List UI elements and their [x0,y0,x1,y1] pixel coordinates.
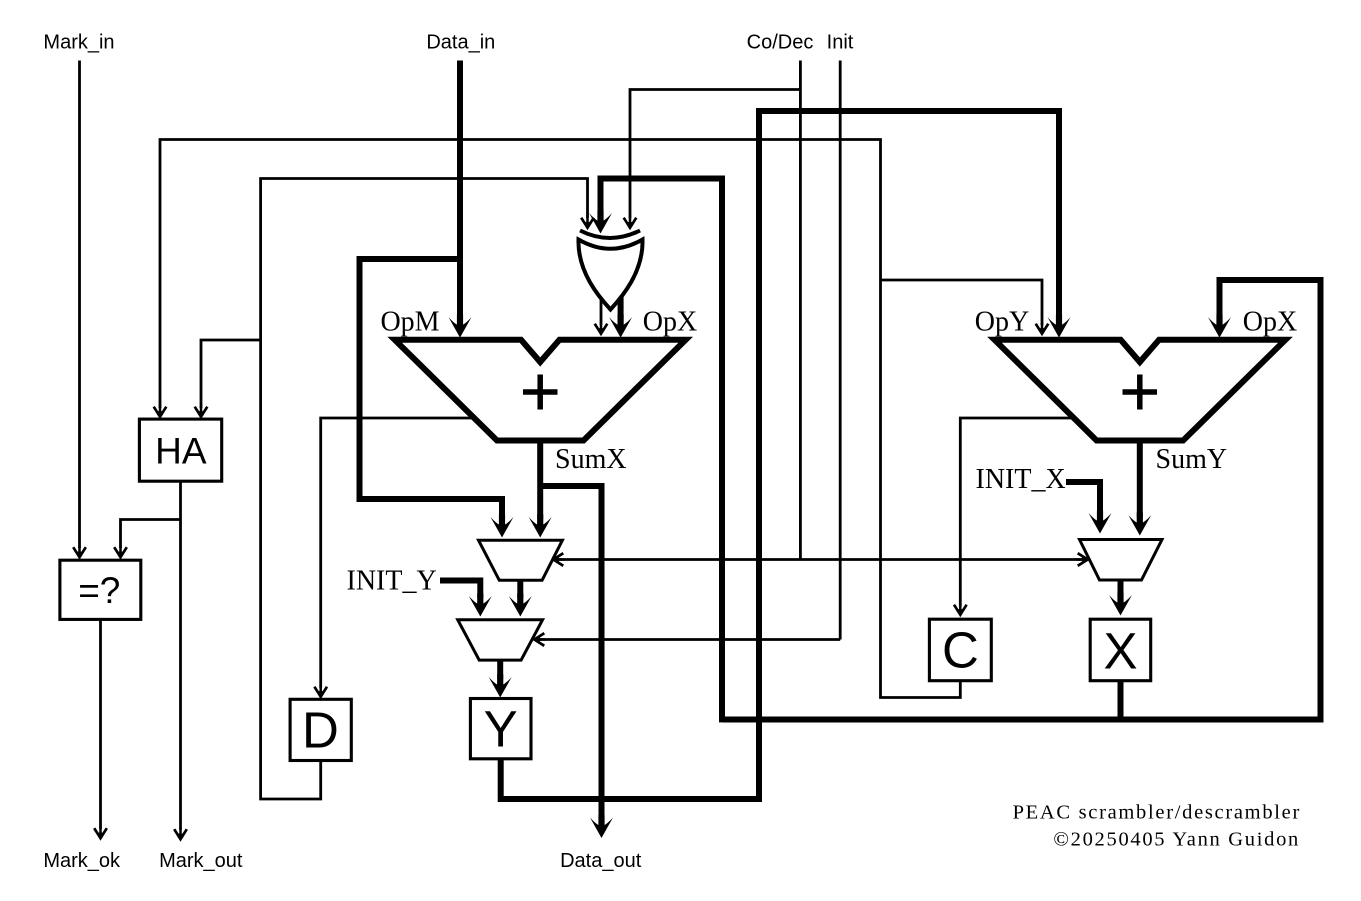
svg-text:X: X [1103,623,1137,680]
plus sign of adder A2 [1123,375,1158,410]
svg-text:INIT_X: INIT_X [976,464,1066,495]
svg-text:HA: HA [155,431,207,472]
wire net C branch to OpY thin input [881,280,1049,335]
comparator =? box [60,560,141,619]
wire Mark_ok output of comparator [94,620,107,840]
wire Co/Dec branch to XOR input [624,90,801,229]
svg-text:SumY: SumY [1156,444,1228,475]
wire net D branch to HA right input [195,340,261,418]
mux M1 [479,540,563,580]
svg-text:OpY: OpY [975,307,1029,338]
wire X feedback to right adder OpX [722,280,1321,720]
register C box [929,619,991,681]
adder A2 (right) [995,340,1286,441]
wire XOR thin output to OpX [595,300,608,335]
wire right adder carry to C register [954,418,1073,616]
svg-text:PEAC scrambler/descrambler: PEAC scrambler/descrambler [1013,802,1301,824]
svg-text:C: C [942,622,979,679]
wire net C feedback to HA left input and OpY [154,140,961,698]
xor gate U1 [578,231,642,310]
wire Data_in branch to mux M1 left input [360,259,514,538]
wire XOR thick output to OpX [609,294,632,338]
plus sign of adder A1 [523,375,558,410]
svg-text:SumX: SumX [555,444,627,475]
svg-text:Mark_in: Mark_in [43,32,114,54]
svg-text:Y: Y [484,701,518,758]
register Y box [470,699,531,759]
mux M2 [458,620,543,660]
wire mux M3 output to X register [1109,580,1132,616]
wire X feedback to XOR thick input [589,179,722,723]
svg-text:Data_out: Data_out [560,850,642,872]
svg-text:Mark_ok: Mark_ok [43,850,121,872]
svg-text:INIT_Y: INIT_Y [347,566,437,597]
svg-text:Mark_out: Mark_out [159,850,243,872]
wire HA output branch to comparator [114,520,180,559]
half-adder HA box [139,419,221,481]
register X box [1090,619,1151,681]
wire X register output rail [1118,681,1124,720]
svg-text:Co/Dec: Co/Dec [747,32,814,54]
svg-text:Data_in: Data_in [426,32,495,54]
wire HA output to Mark_out [174,481,187,840]
wire Data_in to OpM [449,61,472,338]
wire SumX branch to Data_out [540,486,613,838]
wire INIT_Y to mux M2 left input [440,581,492,617]
svg-text:D: D [302,702,339,759]
svg-text:OpM: OpM [380,307,439,338]
wire select Init to mux M2 [534,633,841,646]
wire left adder carry to D register [314,418,473,698]
svg-text:=?: =? [78,570,120,611]
mux M3 [1080,540,1163,581]
adder A1 (left) [395,340,686,441]
wire SumX to mux M1 right input [529,443,552,538]
svg-text:OpX: OpX [643,307,697,338]
wire select Co/Dec to mux M1 and mux M3 [553,553,1089,566]
wire mux M2 output to Y register [489,660,512,698]
wire net D feedback to XOR input [261,179,594,800]
svg-text:Init: Init [827,32,854,54]
wire Init vertical [839,61,842,640]
wire mux M1 output to mux M2 right input [509,580,532,617]
wire Mark_in to comparator [73,61,86,559]
wire INIT_X to mux M3 left input [1066,482,1112,534]
register D box [290,699,351,760]
wire Y register feedback to OpY [501,111,1071,799]
wire SumY to mux M3 right input [1128,443,1151,536]
wire Co/Dec vertical [799,61,802,560]
svg-text:OpX: OpX [1243,307,1297,338]
svg-text:©20250405 Yann Guidon: ©20250405 Yann Guidon [1053,829,1300,851]
